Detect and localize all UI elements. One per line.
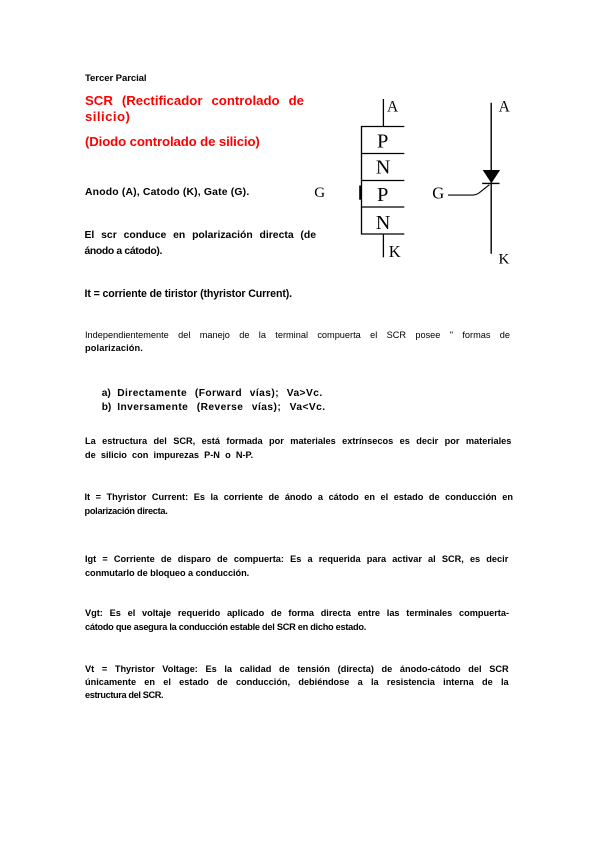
gate terminal stub G on layer P2 [359,186,361,200]
wire: anode lead of PNPN stack [382,99,384,127]
wire: cathode lead of PNPN stack [382,234,384,257]
svg-text:P: P [377,131,388,153]
svg-text:G: G [314,185,325,201]
svg-text:N: N [376,156,390,178]
svg-text:K: K [389,242,401,261]
thyristor SCR1 cathode bar [482,182,499,184]
wire: left edge of PNPN layer stack [361,127,363,235]
svg-text:A: A [387,98,399,115]
thyristor SCR1 anode triangle [483,170,500,183]
svg-text:K: K [499,251,510,267]
svg-text:P: P [377,184,388,206]
svg-text:G: G [432,184,444,203]
wire: gate lead of SCR symbol [448,185,489,195]
svg-text:A: A [499,98,511,115]
svg-text:N: N [376,212,390,234]
wire: bottom edge of layer N2 [361,233,404,235]
wire: anode-cathode vertical lead of SCR symbol [490,103,492,254]
wire: boundary P1/N1 [361,153,404,155]
wire: boundary P2/N2 [361,206,404,208]
wire: boundary N1/P2 [361,180,404,182]
wire: top edge of layer P1 [361,126,404,128]
